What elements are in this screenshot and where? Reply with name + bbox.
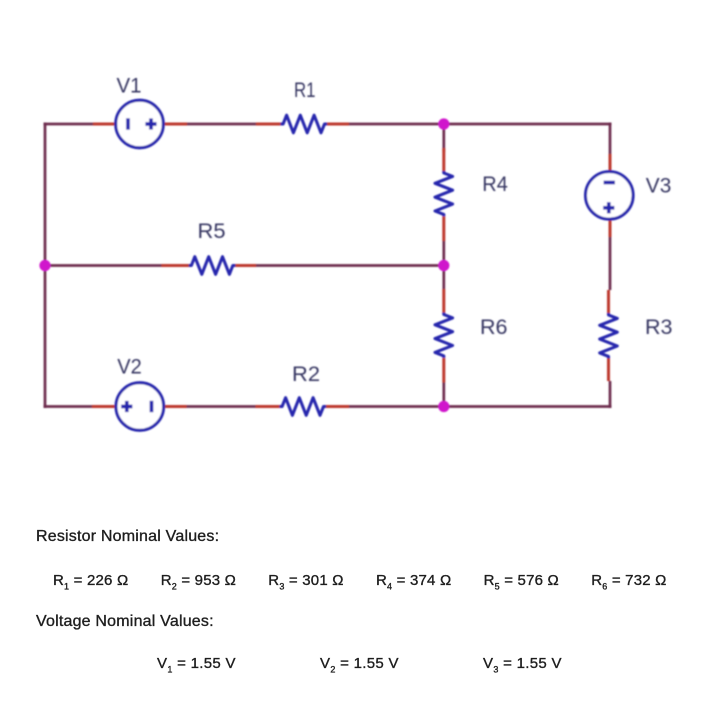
label V2 <box>117 355 142 379</box>
wire: R4 lead top (red) <box>442 148 445 171</box>
wire: bottom rail corner to V2 <box>44 405 93 408</box>
svg-text:R1: R1 <box>294 78 316 102</box>
wire: V3 lead top (red) <box>609 154 612 172</box>
wire: top rail, corner to V1 left lead <box>44 123 94 126</box>
text: Voltage Nominal Values heading <box>36 613 214 631</box>
wire: top rail top node to right corner <box>444 123 612 126</box>
wire: left rail bottom (mid node to bottom corner) <box>44 266 47 409</box>
resistor R4 <box>435 171 453 216</box>
wire: V1 lead right (red) <box>163 123 187 126</box>
wire: middle column R4 to center node <box>442 241 445 266</box>
wire: R1 lead right (red) <box>327 123 350 126</box>
node: left middle junction <box>39 260 50 271</box>
wire: V1 lead left (red) <box>93 123 116 126</box>
wire: R6 lead top (red) <box>442 289 445 313</box>
voltage source V1 <box>116 100 164 148</box>
svg-text:R3: R3 <box>645 315 673 339</box>
wire: bottom rail bottom node to right corner <box>444 405 612 408</box>
wire: right rail between V3 and R3 <box>609 237 612 290</box>
svg-text:R2: R2 <box>292 362 320 386</box>
text: resistor values row <box>0 0 724 1</box>
svg-text:V1: V1 <box>117 73 142 97</box>
wire: bottom rail V2 to R2 <box>187 405 256 408</box>
voltage source V3 <box>586 172 634 220</box>
voltage source V2 <box>116 383 164 431</box>
wire: V2 lead left (red) <box>92 405 116 408</box>
wire: R2 lead right (red) <box>326 405 350 408</box>
resistor R2 <box>280 398 327 416</box>
wire: V2 lead right (red) <box>163 405 186 408</box>
label V1 <box>117 73 142 97</box>
wire: R5 lead left (red) <box>162 264 190 267</box>
wire: R3 lead bottom (red) <box>607 358 610 381</box>
label R1 <box>294 78 316 102</box>
svg-text:R4: R4 <box>482 172 508 196</box>
label R5 <box>198 219 226 243</box>
wire: right rail corner down to V3 <box>609 123 612 155</box>
svg-text:R5: R5 <box>198 219 226 243</box>
wire: middle column center node to R6 <box>442 266 445 290</box>
wire: R6 lead bottom (red) <box>442 358 445 383</box>
resistor R5 <box>189 257 236 275</box>
text: Resistor Nominal Values heading <box>36 528 219 546</box>
label R2 <box>292 362 320 386</box>
node: center junction <box>438 260 449 271</box>
wire: R3 lead top (red) <box>607 290 610 313</box>
text: voltage values row <box>0 0 724 1</box>
wire: top rail between V1 and R1 <box>187 123 256 126</box>
label R6 <box>480 315 508 339</box>
resistor R3 <box>600 313 618 358</box>
resistor R6 <box>435 313 453 358</box>
svg-text:R6: R6 <box>480 315 508 339</box>
wire: middle column top node to R4 <box>442 124 445 152</box>
wire: left rail top (corner to mid node) <box>44 123 47 266</box>
wire: V3 lead bottom (red) <box>609 219 612 237</box>
label V3 <box>646 174 672 198</box>
wire: R4 lead bottom (red) <box>442 216 445 241</box>
svg-text:V3: V3 <box>646 174 672 198</box>
wire: middle column R6 to bottom node <box>442 383 445 407</box>
resistor R1 <box>281 115 328 133</box>
wire: R1 lead left (red) <box>256 123 281 126</box>
wire: R5 lead right (red) <box>235 264 257 267</box>
label R4 <box>482 172 508 196</box>
wire: top rail R1 to top node <box>349 123 444 126</box>
svg-text:V2: V2 <box>117 355 142 379</box>
label R3 <box>645 315 673 339</box>
wire: middle rail R5 to center node <box>256 264 444 267</box>
node: top junction <box>438 118 449 129</box>
wire: right rail R3 to bottom corner <box>609 381 612 408</box>
wire: bottom rail R2 to bottom node <box>349 405 444 408</box>
wire: R2 lead left (red) <box>256 405 281 408</box>
wire: middle rail left node to R5 <box>44 264 162 267</box>
node: bottom junction <box>438 401 449 412</box>
